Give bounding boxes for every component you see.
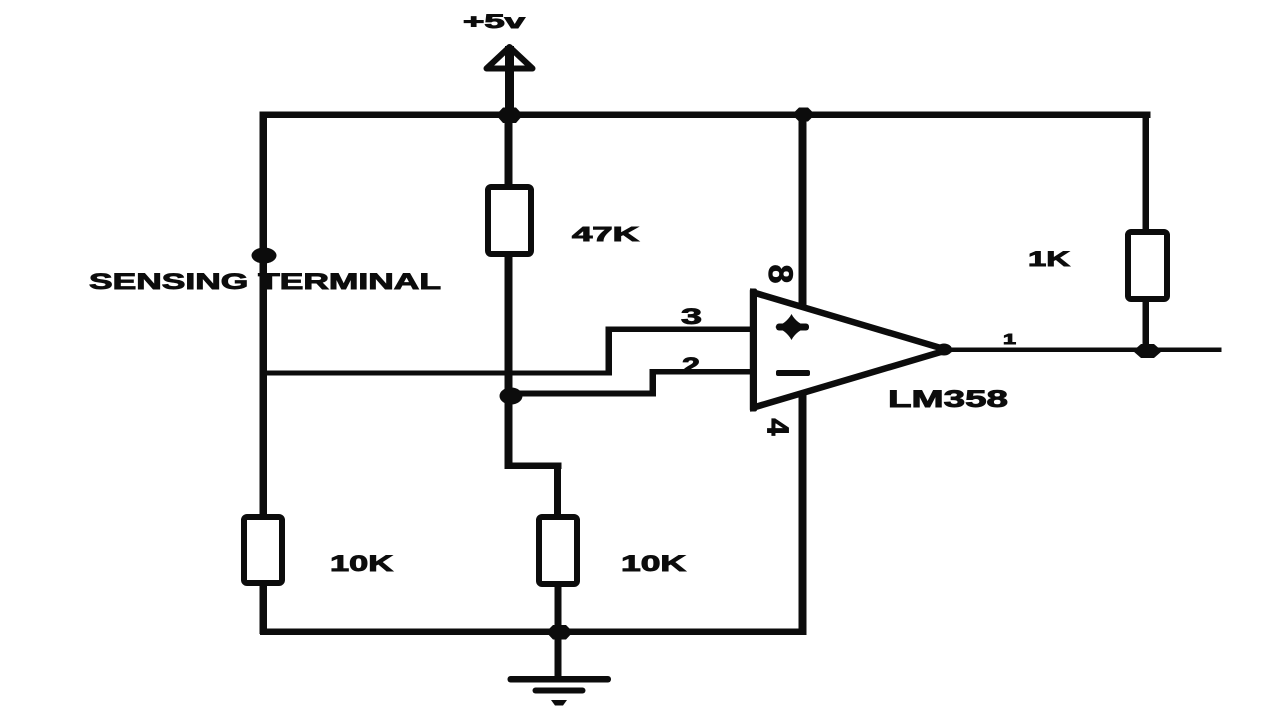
svg-text:+5v: +5v — [463, 12, 526, 33]
svg-text:8: 8 — [761, 265, 799, 284]
svg-text:10K: 10K — [621, 551, 686, 576]
svg-text:47K: 47K — [572, 224, 640, 246]
svg-text:3: 3 — [681, 304, 702, 329]
svg-text:10K: 10K — [330, 551, 393, 576]
svg-text:2: 2 — [682, 353, 700, 378]
svg-text:4: 4 — [761, 418, 796, 436]
svg-text:LM358: LM358 — [888, 386, 1008, 413]
svg-text:SENSING TERMINAL: SENSING TERMINAL — [89, 269, 441, 294]
svg-text:1K: 1K — [1028, 248, 1070, 271]
svg-text:1: 1 — [1003, 331, 1016, 348]
